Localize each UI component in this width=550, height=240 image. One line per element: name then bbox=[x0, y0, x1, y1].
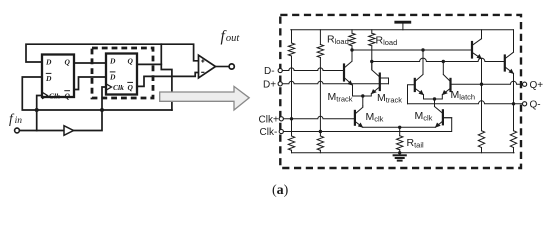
VDD bar bbox=[396, 21, 410, 24]
M5 collector bbox=[443, 75, 450, 82]
svg-text:Clk: Clk bbox=[113, 83, 124, 92]
bias divider column 2 lower resistor bbox=[319, 132, 321, 153]
terminal D- bbox=[278, 68, 282, 72]
terminal Q- bbox=[523, 102, 527, 106]
U4 collector bbox=[473, 30, 482, 45]
M3 collector bbox=[356, 106, 363, 114]
junction Clk- bias bbox=[319, 130, 322, 133]
junction node A / Rload1 bbox=[350, 48, 353, 51]
resistor Rload left: body bbox=[349, 33, 355, 46]
junction clk1/fin node bbox=[35, 108, 39, 112]
U2 clock wedge bbox=[106, 84, 112, 90]
M1 emitter arrowhead bbox=[348, 80, 353, 85]
dashed border of latch schematic bbox=[280, 15, 521, 168]
M2 emitter arrowhead bbox=[371, 89, 377, 94]
resistor Rload left: leads bbox=[351, 30, 353, 61]
transistor M3 Mclk left: base bar bbox=[354, 111, 356, 125]
svg-text:D: D bbox=[45, 58, 52, 67]
wire clock buffer output up to clock of U2 bbox=[74, 87, 107, 131]
wire Q of U1 to D of U2 bbox=[74, 62, 106, 64]
resistor Rload right: body bbox=[369, 33, 375, 46]
svg-text:D: D bbox=[109, 73, 116, 82]
svg-text:(a): (a) bbox=[272, 183, 289, 198]
resistor Rtail leads bbox=[399, 127, 401, 153]
wire Mlatch tail down to Mclk2 bbox=[434, 99, 436, 105]
M4 base loop to Q- line bbox=[408, 85, 415, 104]
junction Mtrack common emitter bbox=[361, 94, 364, 97]
output buffer U3 bbox=[199, 55, 216, 78]
fout terminal bbox=[229, 64, 234, 69]
wire Clk+ input line with hop bbox=[282, 116, 354, 119]
svg-text:Q+: Q+ bbox=[530, 80, 544, 91]
transistor U4 emitter follower upper: base bar bbox=[471, 42, 473, 58]
svg-text:Q: Q bbox=[128, 57, 134, 66]
transistor U5 emitter follower lower: base bar bbox=[504, 56, 506, 71]
wire top feedback rail to D of U1 and buffer + input bbox=[26, 44, 199, 62]
svg-text:D-: D- bbox=[264, 66, 275, 77]
M1 collector bbox=[345, 50, 352, 68]
M5 emitter bbox=[435, 89, 450, 99]
fin terminal bbox=[15, 128, 20, 133]
wire node A drop to Mlatch left collector bbox=[422, 50, 424, 74]
transistor M4 Mlatch left: base bar bbox=[414, 79, 416, 91]
wire Qbar of U1 to Dbar of U2 bbox=[74, 77, 106, 90]
tail rail bbox=[363, 126, 436, 128]
M4 emitter arrowhead bbox=[419, 90, 424, 95]
junction tail node bbox=[398, 126, 401, 129]
M4 collector bbox=[415, 75, 423, 82]
transistor M5 Mlatch right: base bar bbox=[449, 79, 451, 91]
M4 emitter bbox=[415, 89, 434, 99]
wire Q- output line with hop bbox=[408, 101, 523, 104]
wire Dbar of U1 to bottom feedback rail bbox=[22, 77, 172, 110]
terminal Q+ bbox=[523, 82, 527, 86]
terminal D+ bbox=[278, 82, 282, 86]
flip-flop U1 box bbox=[42, 55, 74, 98]
junction Mlatch common emitter bbox=[433, 97, 436, 100]
svg-text:Clk: Clk bbox=[49, 91, 60, 100]
resistor Rload right: leads bbox=[371, 30, 373, 70]
bias divider column 1 upper resistor bbox=[291, 30, 293, 119]
svg-text:Clk+: Clk+ bbox=[259, 114, 279, 125]
M2 emitter bbox=[363, 87, 379, 96]
terminal Clk+ bbox=[279, 117, 283, 121]
M2 collector bbox=[372, 62, 379, 77]
svg-text:Q-: Q- bbox=[530, 99, 541, 110]
terminal Clk- bbox=[279, 129, 283, 133]
svg-text:out: out bbox=[226, 33, 241, 44]
wire Q+ output line with hop bbox=[451, 81, 523, 84]
U4 emitter arrowhead bbox=[477, 54, 482, 59]
U5 collector bbox=[505, 30, 513, 59]
M6 emitter bbox=[435, 122, 442, 128]
U5 emitter bbox=[505, 67, 513, 130]
resistor R3 (U4 emitter load) body bbox=[478, 131, 484, 148]
VDD stem bbox=[402, 22, 404, 30]
U4 emitter bbox=[473, 53, 482, 131]
node A rail: Rload1 to Mlatch collector to U4 base bbox=[352, 49, 472, 51]
wire U3 output to fout terminal bbox=[216, 66, 230, 68]
svg-text:D: D bbox=[109, 57, 116, 66]
svg-text:in: in bbox=[15, 116, 23, 126]
junction node B / Rload2 bbox=[370, 60, 373, 63]
svg-text:D+: D+ bbox=[263, 80, 276, 91]
M6 base bbox=[443, 117, 452, 119]
svg-text:Q: Q bbox=[65, 58, 71, 67]
node B rail with hops: Rload2 to Mlatch collector to U5 base bbox=[372, 58, 505, 61]
U1 clock wedge bbox=[42, 92, 48, 99]
wire D- input line with hops bbox=[282, 68, 344, 71]
clock buffer on fin line bbox=[64, 126, 74, 136]
svg-text:Q: Q bbox=[128, 83, 134, 92]
dashed highlight box around U2 bbox=[92, 48, 153, 98]
wire Q output of U2 to feedback riser bbox=[137, 63, 161, 65]
transistor M2 Mtrack right: base bar bbox=[379, 74, 381, 90]
wire clock input of U1 down to fin line bbox=[37, 96, 42, 131]
R3 bottom lead bbox=[481, 148, 483, 153]
wire fin to clock buffer bbox=[19, 130, 64, 132]
transistor M6 Mclk right: base bar bbox=[442, 110, 444, 124]
U3 plus mark bbox=[201, 59, 204, 62]
junction Clk+ bias bbox=[290, 117, 293, 120]
resistor R4 (U5 emitter load) body bbox=[510, 131, 516, 148]
resistor Rtail body bbox=[397, 136, 403, 150]
junction clk2/rail node bbox=[100, 108, 104, 112]
M3 emitter arrowhead bbox=[358, 123, 363, 128]
M6 emitter arrowhead bbox=[435, 123, 441, 128]
wire Mtrack tail down to Mclk1 bbox=[362, 96, 364, 106]
junction node B / Mlatch R collector bbox=[442, 60, 445, 63]
svg-text:D: D bbox=[45, 74, 52, 83]
M6 collector bbox=[435, 105, 443, 113]
big block arrow bbox=[160, 86, 250, 110]
flip-flop U2 box bbox=[106, 54, 137, 95]
supply rail bbox=[291, 29, 514, 31]
wire Qbar of U2 to output buffer - input bbox=[137, 73, 199, 87]
wire Clk- input line to Mclk2 base loop bbox=[282, 118, 452, 132]
U5 emitter arrowhead bbox=[509, 69, 514, 74]
junction ground node bbox=[398, 151, 401, 154]
wire node B drop to Mlatch right collector bbox=[442, 62, 444, 75]
wire riser from bottom rail up to node joining top rail bbox=[161, 44, 172, 110]
bias divider column 2 upper resistor bbox=[319, 30, 321, 132]
ground rail bbox=[292, 152, 515, 154]
wire D+ loop to M2 base bbox=[381, 78, 389, 84]
transistor M1 Mtrack left: base bar bbox=[343, 65, 345, 81]
wire D+ input line with hops bbox=[282, 81, 388, 84]
bias divider column 1 lower resistor bbox=[291, 119, 293, 153]
junction Q- / U5 emitter bbox=[512, 102, 515, 105]
junction Q+ / U4 emitter bbox=[480, 83, 483, 86]
M5 emitter arrowhead bbox=[442, 90, 448, 95]
U3 minus mark bbox=[201, 71, 204, 73]
junction node A / Mlatch L collector bbox=[421, 48, 424, 51]
M1 emitter bbox=[345, 78, 363, 96]
svg-text:Clk-: Clk- bbox=[260, 127, 278, 138]
ground symbol bbox=[399, 153, 401, 155]
M3 emitter bbox=[356, 122, 363, 128]
svg-text:Q: Q bbox=[65, 91, 71, 100]
R4 bottom lead bbox=[513, 148, 515, 153]
